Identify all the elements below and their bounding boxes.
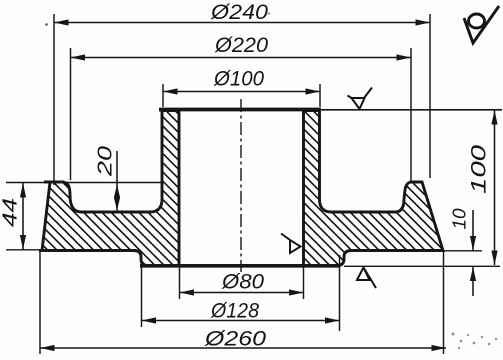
dim line 20 xyxy=(116,151,118,211)
arrow 100 top xyxy=(491,110,497,125)
dim line 100 xyxy=(494,110,496,265)
ext line D220 left xyxy=(70,48,72,180)
dim line 10 upper xyxy=(472,210,474,251)
arrow 20 top xyxy=(114,185,120,198)
arrow D220 R xyxy=(397,54,412,60)
wire: rim top right overshoot xyxy=(410,181,423,184)
wire: rim top left overshoot xyxy=(44,181,64,184)
ext line y=266 right (100/10 dim bottom) xyxy=(344,265,500,267)
dim line D128 xyxy=(142,320,340,322)
ext line D240 left xyxy=(53,14,55,185)
thin extension of hub top to right (100 dim top) xyxy=(321,109,502,111)
arrow D100 R xyxy=(306,88,321,94)
arrow D220 L xyxy=(71,54,86,60)
section hatching left xyxy=(20,0,200,360)
arrow D260 L xyxy=(40,345,55,351)
arrow D80 L xyxy=(180,289,195,295)
svg-text:Ø260: Ø260 xyxy=(204,328,267,351)
ext line D100 left xyxy=(162,84,164,107)
arrow 10 bottom xyxy=(470,267,476,282)
wire: rim bottom left overshoot xyxy=(39,249,136,252)
svg-text:Ø80: Ø80 xyxy=(221,271,264,294)
arrow 10 top xyxy=(470,236,476,251)
section body right outline xyxy=(304,111,444,266)
ext line D80 right xyxy=(303,267,305,299)
finish symbol S2 (on hub-top ext line) xyxy=(348,88,373,110)
dim line D80 xyxy=(180,292,304,294)
section hatching right xyxy=(270,12,460,360)
thin reference line y=182 (44-top / 20 base) xyxy=(6,182,161,184)
finish symbol S3 (bore wall) xyxy=(281,234,301,254)
svg-text:Ø240: Ø240 xyxy=(210,1,268,24)
ext line D220 right xyxy=(410,48,412,182)
dim line D100 xyxy=(163,91,320,93)
ext line y=250.5 right (10 dim top) xyxy=(444,250,483,252)
arrow 44 top xyxy=(20,183,26,198)
svg-text:10: 10 xyxy=(450,209,470,230)
ext line D260 left xyxy=(39,252,41,354)
svg-text:Ø100: Ø100 xyxy=(213,68,264,91)
svg-text:44: 44 xyxy=(0,198,22,227)
wire: boss bottom face thick line xyxy=(140,264,340,268)
ext line D128 right xyxy=(339,255,341,331)
arrow D128 R xyxy=(325,317,340,323)
ext line 44 bottom xyxy=(6,249,42,251)
dim line D220 xyxy=(71,57,412,59)
ext line D128 left xyxy=(141,255,143,327)
arrow 44 bottom xyxy=(20,235,26,250)
ext line D260 right xyxy=(443,252,445,354)
svg-text:20: 20 xyxy=(95,146,117,177)
arrow D100 L xyxy=(163,88,178,94)
dim line D260 xyxy=(40,347,446,349)
svg-text:Ø220: Ø220 xyxy=(214,34,268,57)
arrow D240 R xyxy=(416,19,431,25)
arrow D128 L xyxy=(142,317,157,323)
svg-text:100: 100 xyxy=(468,145,491,194)
dim line 10 lower xyxy=(472,267,474,297)
centerline xyxy=(240,99,242,272)
ext line D240 right xyxy=(429,14,431,178)
ext line D100 right xyxy=(319,84,321,107)
finish symbol S1 (top right, rest-of-surfaces) xyxy=(464,6,499,43)
arrow D260 R xyxy=(432,345,447,351)
arrow 100 bottom xyxy=(491,251,497,266)
wire: hub top face thick line xyxy=(159,108,321,112)
dim line D240 xyxy=(54,22,430,24)
ext line D80 left xyxy=(179,267,181,299)
section body left outline xyxy=(42,111,179,266)
finish symbol S4 (boss bottom) xyxy=(357,268,376,289)
arrow 20 bottom xyxy=(114,198,120,211)
arrow D240 L xyxy=(54,19,69,25)
arrow D80 R xyxy=(289,289,304,295)
svg-text:Ø128: Ø128 xyxy=(210,300,259,323)
dim line 44 xyxy=(22,183,24,250)
